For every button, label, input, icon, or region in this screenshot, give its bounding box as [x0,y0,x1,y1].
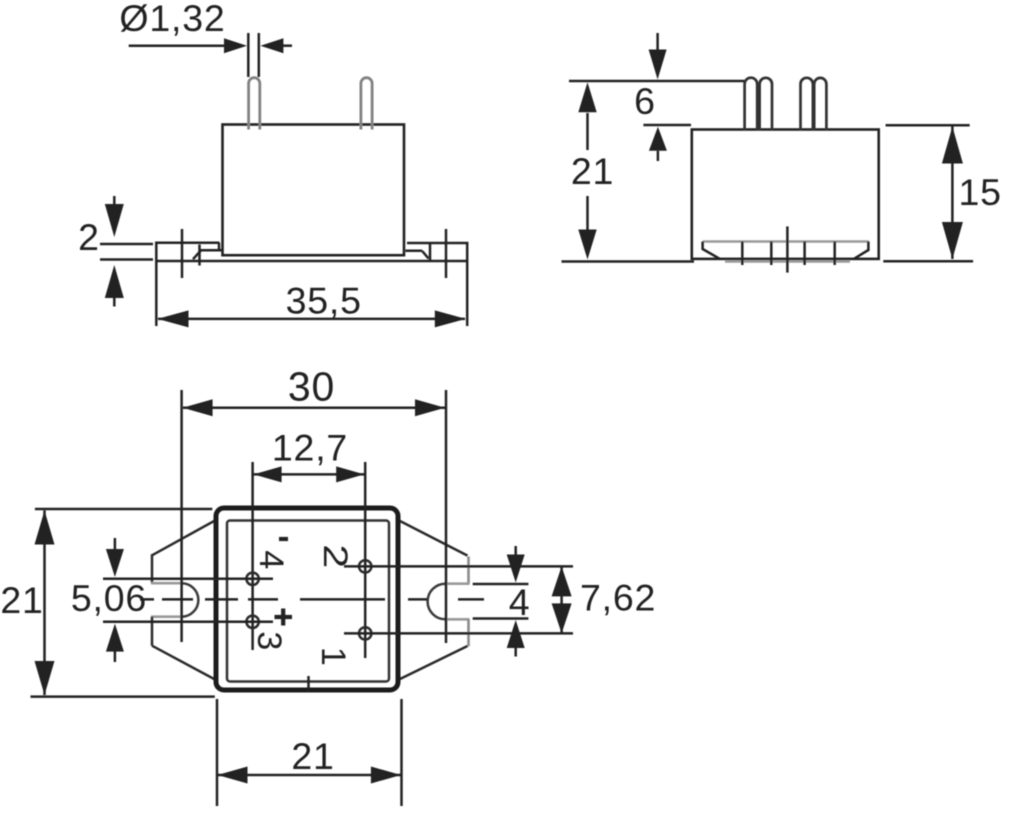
extension line 35,5 left [155,262,158,326]
svg-text:Ø1,32: Ø1,32 [119,0,225,39]
arrow left 12,7 [254,466,282,482]
base plate crimp curve right [422,251,428,259]
extension line slot bottom [473,617,529,620]
mounting hole centerline left (front view) [181,229,184,278]
arrow up to plate bottom [105,265,124,298]
pin label plus sign for pin 3 [275,609,293,626]
flange right slant top [399,521,468,556]
pin pair 2 outline a [801,78,813,130]
extension line top [35,508,212,511]
arrow down to top line [649,50,667,80]
skirt tick 3 [803,242,806,266]
body square thick border (bottom view) [216,508,398,690]
flange left slot top (gray) [151,582,182,585]
extension line top (pin tops) [569,80,744,83]
dim line 12,7 [254,473,365,476]
svg-text:21: 21 [291,735,334,777]
dimension Ø1,32 [129,33,292,77]
arrow up to +3 row [106,624,124,652]
dim line 30 [183,407,445,410]
flange right edge lower (gray) [467,619,470,646]
flange left slant top [152,521,215,556]
arrow up 21 [578,82,596,112]
flange left slant bottom [152,646,215,680]
horizontal centerline dashes [140,598,484,601]
flange right slot bottom (gray) [445,618,469,621]
base plate top step connector left [218,243,221,251]
extension line pin right edge [258,33,261,77]
svg-text:2: 2 [78,216,100,258]
dimension 35,5 [156,262,467,327]
flange right edge upper (gray) [467,557,470,584]
body bottom line over plate [223,254,405,257]
dimension 7,62 [552,566,572,633]
svg-text:5,06: 5,06 [71,577,147,619]
svg-text:4: 4 [252,550,290,570]
base plate outline [156,243,467,261]
arrow right 30 [415,399,445,416]
mounting hole centerline right (front view) [445,229,448,278]
arrow down to -4 row [106,549,124,577]
mounting centerline left vertical [180,390,183,642]
dim stem 7,62 [560,566,563,633]
flange right slant bottom [399,646,468,680]
arrow left [218,767,248,784]
skirt left notch [703,242,720,259]
mounting centerline right vertical [445,390,448,643]
dim tail right of Ø1,32 [281,44,292,47]
pin -4 circle [246,573,258,585]
pin label minus sign for pin 4 [279,537,288,541]
svg-text:12,7: 12,7 [272,427,348,469]
svg-text:21: 21 [0,579,43,621]
extension line plate top [100,243,153,246]
dim line [218,774,401,777]
extension line 15 bottom [883,260,973,263]
base plate crimp step left [201,249,223,252]
pin 1 circle [359,627,371,639]
extension line 6 bottom [643,124,691,127]
skirt right notch [854,242,868,259]
skirt bottom shadow line (gray) [725,260,850,263]
bottom center tick [307,676,310,692]
extension line right [400,699,403,806]
inner square thin line [227,521,389,682]
arrow up [35,511,55,545]
dimension 21 (bottom view left) [31,509,215,697]
dim stem 15 [951,127,954,260]
skirt tick 1 [741,242,744,266]
arrow up to slot bottom [507,620,525,648]
flange left slot bottom (gray) [151,615,182,618]
dimension 21 (bottom view bottom) [217,699,402,806]
dim stem [43,511,46,696]
svg-text:1: 1 [314,647,352,667]
arrow left 30 [183,399,213,416]
extension line 15 top [886,124,970,127]
dimension 5,06 [106,538,124,662]
arrow down to plate top [105,204,124,237]
body outline (side view) [692,130,879,259]
arrow left 35,5 [158,310,189,327]
extension line left [216,699,219,806]
svg-text:4: 4 [509,581,531,623]
svg-text:30: 30 [288,364,335,410]
flange left edge lower [151,617,154,646]
pin pair 1 outline a [745,78,758,130]
arrow up to 6 bottom line [649,127,667,151]
extension line 35,5 right [466,262,469,326]
svg-text:15: 15 [959,171,1002,213]
svg-text:35,5: 35,5 [286,280,362,322]
extension line bottom [31,695,215,698]
dimension 4 (slot width) [473,546,529,657]
flange right slot top (gray) [445,582,469,585]
flange left edge upper [151,554,154,583]
base plate crimp tick left [198,245,201,266]
flange left slot arc [182,583,199,617]
svg-text:6: 6 [634,80,656,122]
svg-text:7,62: 7,62 [580,577,656,619]
arrow down [35,661,55,695]
pin left (front view) [249,78,260,130]
arrow left-pointing Ø1,32 [260,38,283,53]
base plate crimp tick right [429,244,432,261]
pin +3 circle [246,616,258,628]
dimension 30 [183,399,445,416]
dim line left of Ø1,32 [129,44,228,47]
arrow down 15 [942,222,963,259]
pin pair 2 outline b [814,78,826,130]
base plate crimp curve left [193,251,201,260]
svg-text:21: 21 [571,150,614,192]
pin column line right [364,462,367,658]
arrow up 7,62 [552,566,572,596]
svg-text:3: 3 [250,631,288,651]
svg-text:2: 2 [316,544,354,569]
body outline (front view) [223,125,405,256]
pin row line 1 / 7,62 extension [344,632,573,635]
arrow down to slot top [507,555,525,583]
arrow right [371,767,401,784]
dimension 21 (side view height) [562,81,745,262]
skirt tick 4 [833,242,836,266]
pin row line +3 / 5,06 extension [103,621,273,624]
arrow down 7,62 [552,603,572,633]
arrow right 12,7 [336,466,364,482]
extension line pin left edge [247,33,250,77]
dimension 12,7 [254,466,365,482]
pin right (front view) [361,78,372,130]
arrow down 21 [578,230,596,260]
arrow up 15 [942,127,963,164]
extension line slot top [473,583,529,586]
arrow right-pointing Ø1,32 [224,38,247,53]
skirt center line [786,226,789,272]
pin pair 1 outline b [760,78,772,130]
dimension 2 (plate thickness) [100,196,153,307]
pin column line left [251,462,254,650]
skirt top line (gray) [703,240,869,243]
skirt tick 2 [770,242,773,266]
flange right slot arc [428,584,446,620]
arrow right 35,5 [435,310,466,327]
extension line plate bottom [100,258,153,261]
pin row line 2 / 7,62 extension [344,565,573,568]
dimension 15 (body height) [883,125,973,261]
pin row line -4 / 5,06 extension [103,578,273,581]
pin 2 circle [359,560,371,572]
base plate crimp step right [406,250,423,253]
dimension 6 (pin height) [643,33,691,161]
extension line bottom (body bottom) [562,260,695,263]
dim line 35,5 [158,318,465,321]
